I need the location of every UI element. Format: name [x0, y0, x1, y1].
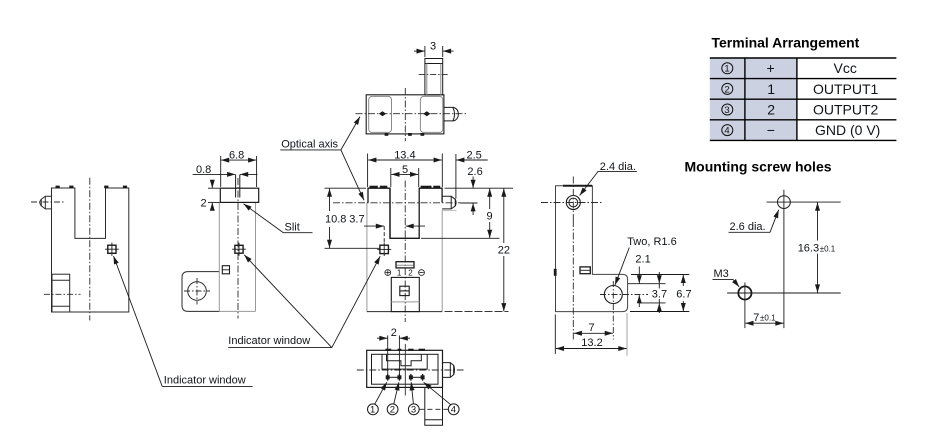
- view F: dimension 7: [574, 332, 613, 334]
- svg-text:1: 1: [370, 405, 375, 416]
- view E: inner case outline: [372, 354, 439, 384]
- view F: label Two R1.6: [627, 236, 677, 248]
- view C: top view body outline: [366, 95, 444, 134]
- mounting hole horizontal line bottom: [727, 292, 841, 294]
- view C: bottom edge marks: [385, 133, 425, 136]
- view F: center line vertical: [572, 220, 574, 340]
- svg-text:2: 2: [391, 327, 397, 339]
- view D: center line: [404, 181, 406, 323]
- view A: indicator window: [105, 243, 119, 256]
- view A: optical axis line: [31, 201, 65, 203]
- view E: leader pin 1: [375, 382, 387, 404]
- view E: lens knob right: [443, 363, 455, 378]
- view C: emitter block: [369, 96, 392, 132]
- title Terminal Arrangement: [712, 35, 860, 51]
- view B: dimension 6.8: [221, 156, 257, 187]
- svg-text:13.2: 13.2: [581, 337, 602, 349]
- svg-text:7: 7: [589, 322, 595, 334]
- view C: lens knob right: [444, 107, 459, 121]
- view D: lens knob right: [442, 196, 456, 209]
- svg-text:1: 1: [397, 269, 402, 278]
- table shading columns 1-2: [710, 58, 797, 140]
- view E: terminal number 1: [368, 404, 379, 416]
- view F: side view body outline: [556, 186, 628, 312]
- view F: mounting hole R1.6: [604, 286, 622, 304]
- svg-text:Two, R1.6: Two, R1.6: [627, 236, 677, 248]
- svg-text:3: 3: [430, 41, 436, 53]
- svg-text:2: 2: [724, 84, 729, 95]
- svg-text:9: 9: [487, 211, 493, 223]
- view A: leader to indicator window label: [114, 256, 163, 387]
- svg-text:4: 4: [451, 405, 456, 416]
- svg-text:2: 2: [390, 405, 395, 416]
- svg-text:−: −: [767, 122, 775, 138]
- svg-text:1: 1: [767, 81, 775, 97]
- label M3: [713, 268, 734, 280]
- view D: extension lines 10.8: [325, 188, 381, 248]
- dimension 7 horizontal: [745, 322, 783, 324]
- view D: extension line body bottom: [445, 311, 509, 313]
- view B: dimension 2: [208, 180, 220, 211]
- table row 1 terminal 1: [722, 60, 857, 76]
- view D: dimension 2.5: [456, 154, 488, 199]
- view F: hole 2.4 dia: [566, 196, 580, 210]
- view D: extension line body top: [445, 187, 514, 189]
- view C: tower axis line: [419, 74, 449, 76]
- view D: optical axis line: [333, 202, 461, 204]
- view A: mounting hole axis line: [44, 293, 81, 295]
- view C: center line: [404, 88, 406, 141]
- view A: left end view of sensor body: [52, 188, 129, 312]
- view E: leader pin 3: [411, 382, 413, 404]
- view D: dimension 5: [391, 168, 419, 187]
- svg-text:±0.1: ±0.1: [820, 244, 836, 253]
- view F: slit mark on top edge: [563, 185, 592, 187]
- mounting hole horizontal line top: [767, 201, 841, 203]
- view D: connector slot window: [396, 262, 414, 268]
- title Mounting screw holes: [685, 159, 832, 175]
- view E: connector tab bottom right: [425, 387, 443, 425]
- view E: dimension 2 extension lines: [388, 335, 400, 374]
- view C: connector tower: [425, 59, 443, 95]
- view E: pins with link bars: [386, 374, 424, 381]
- svg-text:2.6: 2.6: [467, 166, 482, 178]
- svg-text:2.6 dia.: 2.6 dia.: [730, 221, 766, 233]
- view D: prongs and slot outline: [368, 188, 442, 238]
- svg-text:Mounting screw holes: Mounting screw holes: [685, 159, 832, 175]
- view F: dimension 3.7: [658, 272, 660, 313]
- view A: emitter lens knob on left: [40, 196, 52, 209]
- view D: slit marks on prong tops: [370, 186, 441, 189]
- svg-text:GND (0 V): GND (0 V): [815, 122, 880, 138]
- view E: leader pin 2: [394, 382, 399, 404]
- M3 vertical extension: [744, 283, 746, 329]
- svg-text:Indicator window: Indicator window: [164, 375, 246, 387]
- view E: axis line horizontal: [357, 369, 464, 371]
- view E: center line vertical: [404, 344, 406, 396]
- view E: terminal number 2: [387, 404, 398, 416]
- view F: dimension 6.7: [682, 275, 684, 311]
- svg-text:1: 1: [724, 64, 729, 75]
- view B: dimension 0.8: [193, 173, 258, 175]
- view E: terminal number 4: [448, 404, 459, 416]
- view D: dimension 13.4: [368, 154, 443, 188]
- view E: dimension 2: [377, 337, 410, 339]
- svg-text:±0.1: ±0.1: [760, 314, 776, 323]
- svg-text:+: +: [767, 60, 775, 76]
- label 2.6 dia: [729, 221, 771, 233]
- view C: optical axis marker right: [423, 111, 430, 116]
- table row 2 terminal 2: [722, 81, 879, 97]
- svg-text:6.8: 6.8: [229, 150, 244, 162]
- view C: dimension 3: [414, 46, 454, 57]
- svg-text:5: 5: [402, 164, 408, 176]
- view B: mounting ear with hole: [182, 272, 220, 312]
- svg-text:3: 3: [411, 405, 416, 416]
- hole 2.6 dia: [778, 196, 791, 209]
- view A: label Indicator window: [162, 375, 252, 387]
- view D: extension line slot bottom: [421, 237, 500, 239]
- svg-text:3.7: 3.7: [652, 289, 667, 301]
- view D: shadow line under knob: [443, 210, 457, 212]
- svg-text:3.7: 3.7: [349, 214, 364, 226]
- view F: mounting hole crosshair: [600, 281, 648, 340]
- view E: terminal number 3: [408, 404, 419, 416]
- view B: body side outline: [219, 202, 255, 311]
- view C: optical axis line: [356, 113, 468, 115]
- view D: indicator window: [377, 243, 391, 256]
- label Optical axis with leaders: [280, 138, 341, 150]
- table row 4 terminal 4: [722, 122, 881, 138]
- svg-text:OUTPUT1: OUTPUT1: [813, 81, 879, 97]
- view E: dashed link to terminal 4: [419, 408, 448, 410]
- svg-text:Optical axis: Optical axis: [281, 138, 338, 150]
- view B: center line: [237, 178, 239, 319]
- view F: hole crosshair: [541, 177, 604, 221]
- svg-text:2: 2: [767, 101, 775, 117]
- view E: bottom view outer outline: [367, 350, 443, 387]
- table vertical rules: [745, 58, 797, 140]
- view F: dimension 13.2: [556, 348, 627, 350]
- leader 2.6 dia: [770, 210, 779, 233]
- leader M3: [733, 279, 739, 287]
- view F: leader Two R1.6: [615, 248, 629, 286]
- svg-text:M3: M3: [714, 268, 729, 280]
- view D: label Indicator window: [228, 335, 332, 348]
- view D: dimension 2.6: [472, 177, 474, 216]
- svg-text:2: 2: [408, 269, 413, 278]
- view B: indicator window: [232, 243, 246, 256]
- view F: dimension 2.1: [638, 267, 640, 308]
- svg-text:2: 2: [201, 197, 207, 209]
- table horizontal rules: [710, 58, 897, 140]
- view D: dimension 3.7: [364, 226, 425, 243]
- svg-text:0.8: 0.8: [196, 164, 211, 176]
- view F: leader 2.4 dia: [580, 171, 599, 195]
- svg-text:4: 4: [724, 126, 729, 137]
- view D: dimension 22: [503, 189, 505, 312]
- view B: slit lines: [236, 175, 240, 198]
- view A: center line: [89, 178, 91, 321]
- view D: extension line optical axis right: [460, 202, 477, 204]
- svg-text:Indicator window: Indicator window: [228, 335, 310, 347]
- view B: terminal marker: [222, 266, 229, 274]
- svg-text:16.3: 16.3: [798, 243, 819, 255]
- svg-text:2.5: 2.5: [467, 149, 482, 161]
- view D: body bottom edge: [367, 311, 442, 313]
- svg-text:22: 22: [498, 245, 510, 257]
- svg-text:2.1: 2.1: [635, 254, 650, 266]
- svg-text:6.7: 6.7: [676, 289, 691, 301]
- view D: dimension 9: [489, 189, 491, 239]
- view F: terminal marker: [580, 267, 590, 274]
- dimension 16.3: [817, 203, 819, 293]
- svg-text:OUTPUT2: OUTPUT2: [813, 101, 879, 117]
- view B: label Slit: [283, 222, 312, 234]
- view E: top edge marks: [385, 349, 425, 351]
- view A: lower terminal block: [52, 274, 70, 312]
- view A: slit marks on prong tops: [56, 186, 128, 189]
- view E: leader pin 4: [424, 382, 451, 405]
- view B: leader to indicator window label: [244, 255, 332, 348]
- view B: leader to slit label: [244, 204, 284, 233]
- svg-text:7: 7: [753, 312, 759, 324]
- view C: optical axis marker left: [379, 111, 386, 116]
- svg-text:Slit: Slit: [285, 222, 300, 234]
- mounting hole vertical center line: [783, 190, 785, 328]
- svg-text:10.8: 10.8: [325, 214, 346, 226]
- view F: indicator window mark on left edge: [554, 269, 557, 276]
- leader to front view optical axis: [341, 150, 364, 200]
- hole M3: [738, 286, 751, 299]
- view D: dimension 10.8: [329, 189, 331, 248]
- svg-text:13.4: 13.4: [394, 149, 415, 161]
- table row 3 terminal 3: [722, 101, 879, 117]
- svg-text:3: 3: [724, 105, 729, 116]
- view F: extension lines foot dims: [628, 275, 689, 312]
- view D: front view body side outlines: [367, 203, 442, 312]
- svg-text:Terminal Arrangement: Terminal Arrangement: [712, 35, 860, 51]
- view E: connector cavity outline: [382, 354, 427, 369]
- view B: sensing head block: [220, 188, 258, 202]
- view F: dimension 13.2 extension lines: [555, 313, 627, 356]
- view D: connector block: [391, 277, 419, 311]
- view D: leader to indicator window label: [332, 256, 380, 347]
- view D: polarity markings: [385, 269, 425, 278]
- view F: label 2.4 dia: [598, 161, 637, 173]
- view C: detector block: [420, 96, 442, 132]
- leader to top view optical axis: [341, 117, 360, 150]
- svg-text:Vcc: Vcc: [834, 60, 857, 76]
